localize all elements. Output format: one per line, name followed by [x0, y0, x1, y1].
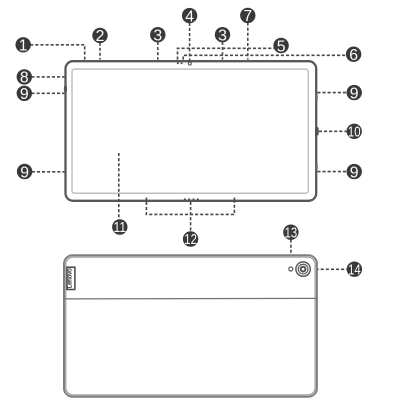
- svg-text:8: 8: [20, 70, 29, 87]
- callout 12: [183, 231, 198, 248]
- callout 9 left upper: [17, 86, 32, 103]
- callout 6: [346, 47, 361, 64]
- leader 9 left upper: [32, 92, 65, 94]
- leader 13: [290, 240, 292, 262]
- svg-text:14: 14: [348, 262, 361, 278]
- svg-text:1: 1: [19, 38, 28, 55]
- svg-text:11: 11: [114, 220, 127, 236]
- pogo pin dots bottom edge: [184, 198, 199, 200]
- callout 5: [273, 38, 288, 55]
- svg-text:13: 13: [285, 225, 298, 241]
- leader 6 bracket: [183, 55, 346, 59]
- back seam line: [65, 297, 316, 300]
- leader 9 right upper: [317, 92, 347, 94]
- tablet back view outer body: [64, 255, 317, 396]
- callout 9 left lower: [17, 164, 32, 181]
- svg-text:10: 10: [348, 124, 361, 140]
- svg-text:9: 9: [20, 86, 29, 103]
- mic dot a top edge: [177, 62, 179, 64]
- svg-text:3: 3: [218, 27, 227, 44]
- front screen: [72, 69, 308, 193]
- leader 11: [118, 153, 120, 220]
- leader 9 left lower: [32, 171, 65, 173]
- callout 13: [283, 225, 298, 242]
- leader 3 left: [157, 42, 159, 60]
- svg-text:5: 5: [277, 38, 286, 55]
- svg-text:7: 7: [243, 8, 252, 25]
- leader 8: [32, 76, 65, 78]
- svg-text:4: 4: [185, 8, 194, 25]
- svg-text:12: 12: [184, 232, 197, 248]
- speaker slit right upper: [316, 94, 318, 101]
- svg-text:Lenovo: Lenovo: [67, 268, 74, 288]
- Lenovo logo plate: [67, 267, 75, 289]
- leader 14: [311, 268, 348, 270]
- volume button left edge: [64, 86, 67, 93]
- callout 11: [112, 219, 127, 236]
- leader 12 stem: [190, 202, 192, 232]
- rear camera outer ring: [296, 262, 310, 276]
- mic dot b top edge: [181, 62, 183, 64]
- rear camera ring 2: [298, 264, 308, 274]
- leader 2: [99, 43, 101, 60]
- bottom edge tick right: [233, 198, 235, 203]
- speaker slit right lower: [316, 164, 318, 171]
- leader 3 right: [222, 42, 224, 60]
- callout 3 right: [215, 27, 230, 44]
- svg-text:9: 9: [350, 85, 359, 102]
- leader 7: [247, 23, 249, 60]
- callout 10: [347, 124, 362, 141]
- leader 5 bracket: [178, 48, 275, 59]
- leader 1: [30, 45, 84, 60]
- callout 2: [92, 28, 107, 45]
- callout 8: [17, 69, 32, 86]
- leader 12 bracket: [146, 202, 234, 215]
- bottom edge tick left: [145, 198, 147, 203]
- leader 9 right lower: [317, 171, 347, 173]
- power button right edge: [315, 127, 319, 136]
- leader 10: [319, 130, 347, 132]
- callout 4: [182, 8, 197, 25]
- speaker slit left lower: [65, 164, 67, 177]
- rear camera lens center: [302, 268, 305, 271]
- rear camera lens: [300, 266, 307, 273]
- callout 1: [16, 37, 31, 54]
- leader 4: [189, 23, 191, 62]
- svg-text:3: 3: [153, 27, 162, 44]
- callout 9 right lower: [347, 164, 362, 181]
- callout 14: [347, 262, 362, 279]
- callout 3 left: [150, 27, 165, 44]
- svg-text:6: 6: [349, 47, 358, 64]
- svg-text:2: 2: [96, 28, 105, 45]
- callout 7: [240, 8, 255, 25]
- tablet front view outer body: [66, 61, 317, 201]
- back inner edge line: [66, 257, 315, 395]
- svg-text:9: 9: [350, 164, 359, 181]
- callout 9 right upper: [347, 85, 362, 102]
- svg-text:9: 9: [20, 164, 29, 181]
- front camera top edge: [188, 62, 191, 65]
- rear flash: [289, 267, 293, 271]
